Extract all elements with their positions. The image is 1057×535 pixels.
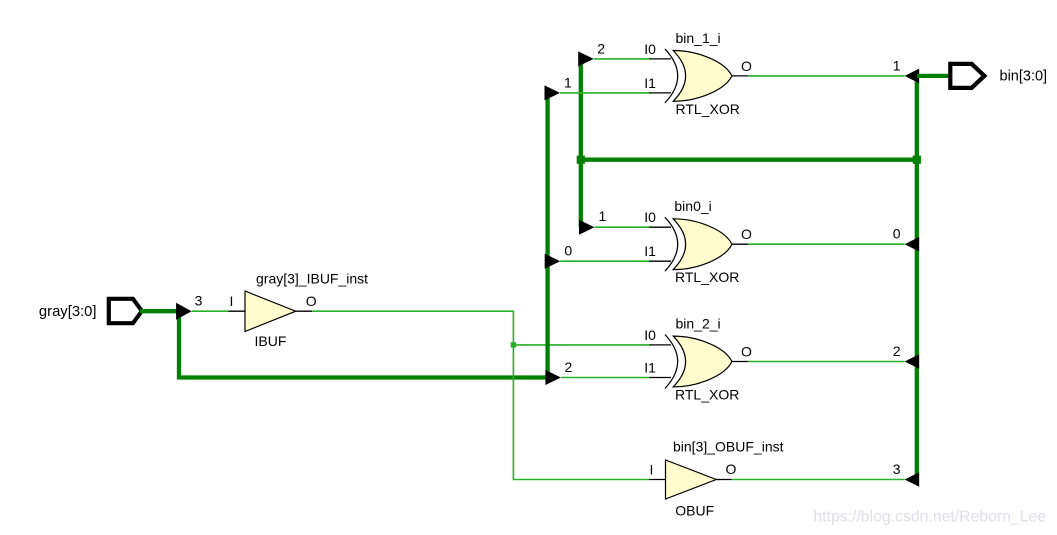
svg-text:O: O <box>741 344 752 360</box>
arrowhead bin[0] into output bus <box>905 237 920 252</box>
OBUF output pin stub <box>716 479 732 481</box>
bin_1_i output pin stub <box>732 75 749 77</box>
wire thick vertical+horizontal bus gray[2] to lower arrow <box>179 311 546 377</box>
svg-text:bin0_i: bin0_i <box>674 198 711 214</box>
arrowhead bin[2] into output bus <box>905 354 920 369</box>
svg-text:O: O <box>741 58 752 74</box>
svg-text:2: 2 <box>597 40 605 56</box>
arrowhead bus tap pin 0 (bin0_i I1) <box>545 254 561 269</box>
wire thick vertical bus left (x=547.6) <box>545 93 549 378</box>
svg-text:2: 2 <box>565 359 573 375</box>
bin_1_i I1 pin stub <box>649 92 671 94</box>
svg-text:0: 0 <box>564 243 572 259</box>
wire output bus to port bin[3:0] <box>917 74 951 78</box>
svg-text:bin_1_i: bin_1_i <box>676 30 721 46</box>
bin0_i output pin stub <box>732 243 749 245</box>
wire to bin_1_i I0 <box>594 58 649 60</box>
svg-text:https://blog.csdn.net/Reborn_L: https://blog.csdn.net/Reborn_Lee <box>813 509 1046 526</box>
arrowhead bus tap pin 2 (bin_2_i I1) <box>545 370 561 385</box>
svg-text:2: 2 <box>893 343 901 359</box>
arrowhead bin[3] into output bus <box>905 472 920 487</box>
xor gate U bin0_i <box>644 198 752 285</box>
xor gate U bin_2_i <box>644 316 752 403</box>
svg-text:I1: I1 <box>644 360 656 376</box>
wire thick vertical bus (x=580.8) <box>579 59 583 227</box>
arrowhead bus tap pin 3 (to IBUF) <box>176 303 192 320</box>
junction square left <box>577 156 585 164</box>
IBUF output pin stub <box>296 310 313 312</box>
svg-text:I0: I0 <box>644 209 656 225</box>
bin_2_i I1 pin stub <box>649 377 671 379</box>
bin0_i I1 pin stub <box>649 260 671 262</box>
svg-text:RTL_XOR: RTL_XOR <box>675 269 739 285</box>
svg-text:RTL_XOR: RTL_XOR <box>676 101 740 117</box>
svg-text:I1: I1 <box>644 243 656 259</box>
wire branch to bin_2_i I0 <box>513 344 649 346</box>
svg-text:I: I <box>650 462 654 478</box>
wire IBUF output net to OBUF input (vertical) <box>312 311 649 479</box>
bin_1_i I0 pin stub <box>649 58 671 60</box>
output port bin[3:0] <box>948 62 1047 90</box>
svg-text:I0: I0 <box>644 41 656 57</box>
svg-text:bin_2_i: bin_2_i <box>676 316 721 332</box>
svg-text:O: O <box>741 226 752 242</box>
svg-text:gray[3]_IBUF_inst: gray[3]_IBUF_inst <box>256 271 368 287</box>
svg-text:OBUF: OBUF <box>675 503 714 519</box>
svg-text:bin[3:0]: bin[3:0] <box>1000 69 1048 85</box>
wire bin_2_i O to bin[2] <box>748 361 904 363</box>
svg-text:3: 3 <box>195 293 203 309</box>
svg-text:I1: I1 <box>644 75 656 91</box>
svg-text:bin[3]_OBUF_inst: bin[3]_OBUF_inst <box>673 439 784 455</box>
svg-text:0: 0 <box>893 226 901 242</box>
bin_2_i output pin stub <box>732 361 749 363</box>
svg-text:RTL_XOR: RTL_XOR <box>675 387 739 403</box>
wire thick vertical bus right (x=916.8) <box>915 76 919 476</box>
wire bin_1_i O to bin[1] <box>748 75 904 77</box>
svg-text:gray[3:0]: gray[3:0] <box>39 304 97 320</box>
svg-text:1: 1 <box>893 57 901 73</box>
bin0_i I0 pin stub <box>649 226 671 228</box>
wire to bin_1_i I1 <box>560 92 649 94</box>
wire bin0_i O to bin[0] <box>748 243 904 245</box>
junction dot on IBUF output net <box>511 342 516 347</box>
arrowhead bus tap pin 1 (bin0_i I0) <box>579 220 595 235</box>
wire OBUF O to bin[3] <box>732 479 905 481</box>
wire to bin_2_i I1 <box>561 377 649 379</box>
svg-text:3: 3 <box>893 461 901 477</box>
bin_2_i I0 pin stub <box>649 344 671 346</box>
svg-text:I0: I0 <box>644 327 656 343</box>
arrowhead bus tap pin 1 (bin_1_i I1) <box>545 85 561 100</box>
arrowhead bus tap pin 2 (bin_1_i I0) <box>578 51 594 66</box>
svg-text:1: 1 <box>564 74 572 90</box>
wire gray[3:0] bus from input port <box>140 309 178 313</box>
svg-text:1: 1 <box>599 208 607 224</box>
wire to bin0_i I1 <box>560 260 649 262</box>
wire to IBUF input I <box>192 310 229 312</box>
svg-text:IBUF: IBUF <box>255 333 287 349</box>
arrowhead bin[1] into output bus <box>905 69 920 84</box>
input port gray[3:0] <box>39 297 144 325</box>
svg-text:O: O <box>726 461 737 477</box>
IBUF input pin stub <box>229 310 246 312</box>
buffer IBUF gray[3]_IBUF_inst <box>230 271 369 350</box>
svg-text:I: I <box>230 293 234 309</box>
buffer OBUF bin[3]_OBUF_inst <box>650 439 784 519</box>
svg-text:O: O <box>306 293 317 309</box>
wire to bin0_i I0 <box>595 226 650 228</box>
junction square right <box>913 156 921 164</box>
OBUF input pin stub <box>649 479 666 481</box>
wire thick horizontal feedback bus (y=159.7) <box>581 158 917 162</box>
xor gate U bin_1_i <box>644 30 752 117</box>
